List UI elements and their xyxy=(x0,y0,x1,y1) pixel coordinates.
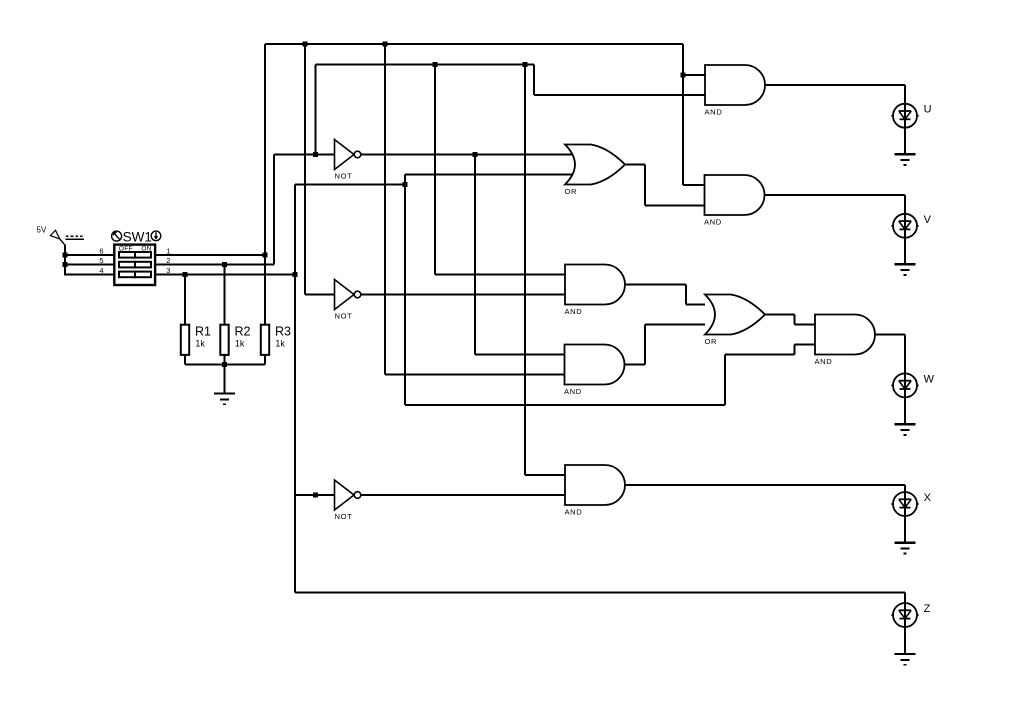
wire net B vertical x315 xyxy=(315,65,317,155)
junction pin3-R1 xyxy=(183,272,188,277)
and-gate AND4 (output W) xyxy=(815,315,876,367)
and-gate AND1 (output U) xyxy=(705,65,766,117)
svg-text:1k: 1k xyxy=(235,339,245,349)
or-gate OR1 xyxy=(565,145,626,197)
wire OR2 bottom input xyxy=(645,324,705,326)
wire NOT1 output to OR1 xyxy=(361,154,575,156)
wire OR1 output vertical xyxy=(644,165,646,206)
wire AND-b top input xyxy=(475,354,565,356)
wire AND1 output to LED U xyxy=(765,84,905,86)
ground resistors xyxy=(214,394,235,405)
wire net A vertical x305 xyxy=(304,44,306,295)
wire LED X drop xyxy=(904,485,906,492)
junction net B x525 xyxy=(523,62,528,67)
wire AND-b output horizontal xyxy=(625,364,646,366)
wire NOT3 output to AND5 xyxy=(361,494,565,496)
wire SW1 pin5 stub xyxy=(65,264,115,266)
wire AND-a output vertical xyxy=(685,285,687,305)
wire OR2 top input xyxy=(686,304,705,306)
or-gate OR2 xyxy=(705,295,766,347)
switch SW1 xyxy=(114,245,155,285)
junction NOT1 output tap xyxy=(473,152,478,157)
wire 5V diagonal xyxy=(60,239,66,246)
wire pin2 horizontal xyxy=(155,264,274,266)
wire NOT3 input xyxy=(295,494,335,496)
wire NOT2 input xyxy=(305,294,335,296)
led W xyxy=(891,373,919,397)
wire AND4 top input xyxy=(795,324,816,326)
wire R2 top xyxy=(224,265,226,326)
ground LED W xyxy=(895,424,916,435)
wire to AND-b bottom input xyxy=(385,374,565,376)
wire net A vertical x265 xyxy=(264,44,266,325)
wire net C vertical x405 xyxy=(404,175,406,406)
wire net A vertical x683 xyxy=(682,44,684,185)
svg-text:NOT: NOT xyxy=(335,312,353,321)
junction net A AND1 tap xyxy=(681,73,686,78)
wire net A top horizontal xyxy=(265,43,683,45)
svg-text:1: 1 xyxy=(166,246,170,255)
wire R3 bottom xyxy=(264,355,266,365)
and-gate AND-a xyxy=(565,265,626,317)
ground LED V xyxy=(895,264,916,275)
resistor R1 xyxy=(181,325,211,355)
svg-text:AND: AND xyxy=(565,307,583,316)
svg-text:V: V xyxy=(924,214,932,226)
wire AND5 output to LED X xyxy=(625,484,905,486)
wire net C long horizontal y405 xyxy=(405,404,725,406)
and-gate AND5 (output X) xyxy=(565,465,626,517)
svg-text:R2: R2 xyxy=(235,325,251,339)
wire SW1 pin6 stub xyxy=(65,254,115,256)
svg-text:R3: R3 xyxy=(275,325,291,339)
junction pin2-R2 xyxy=(222,262,227,267)
wire net C horizontal y184 xyxy=(295,184,405,186)
resistor R2 xyxy=(220,325,250,355)
svg-text:1k: 1k xyxy=(195,339,205,349)
svg-text:NOT: NOT xyxy=(335,172,353,181)
wire NOT1 input xyxy=(274,154,335,156)
wire resistor ground rail xyxy=(185,364,265,366)
wire AND5 top input xyxy=(525,474,565,476)
junction net A x385 xyxy=(383,42,388,47)
wire LED V ground stem xyxy=(904,238,906,264)
wire LED W ground stem xyxy=(904,397,906,424)
junction NOT3 input xyxy=(313,493,318,498)
wire OR1 output horizontal xyxy=(625,164,645,166)
wire pin3 horizontal xyxy=(155,274,295,276)
wire net B upper horizontal xyxy=(316,64,535,66)
wire AND1 top input xyxy=(683,74,705,76)
svg-text:6: 6 xyxy=(99,246,103,255)
wire AND-a output horizontal xyxy=(625,284,686,286)
wire AND2 output to LED V xyxy=(765,194,905,196)
wire net C to LED Z xyxy=(295,592,905,594)
svg-text:SW1: SW1 xyxy=(123,230,152,245)
wire net B vertical x435 xyxy=(434,65,436,275)
wire net B vertical x525 xyxy=(524,65,526,476)
svg-text:Z: Z xyxy=(924,603,931,615)
wire R2 bottom xyxy=(224,355,226,365)
junction ground rail xyxy=(222,362,227,367)
svg-text:3: 3 xyxy=(166,266,170,275)
wire OR2 output horizontal xyxy=(765,314,795,316)
wire AND2 bottom input xyxy=(645,205,705,207)
wire net B vertical x274 xyxy=(273,155,275,265)
wire LED U ground stem xyxy=(904,128,906,154)
led X xyxy=(891,492,919,516)
wire NOT2 output to AND-a xyxy=(361,294,565,296)
wire R1 bottom xyxy=(184,355,186,365)
svg-text:AND: AND xyxy=(704,218,722,227)
ground LED U xyxy=(895,154,916,165)
junction power-pin5 xyxy=(63,262,68,267)
junction pin1-R3-vertical xyxy=(263,253,268,258)
wire net C vertical x295 xyxy=(294,185,296,593)
wire OR2 output vertical xyxy=(794,315,796,325)
led Z xyxy=(891,603,919,627)
wire LED Z ground stem xyxy=(904,627,906,654)
ground LED Z xyxy=(895,654,916,665)
svg-text:4: 4 xyxy=(99,266,103,275)
svg-text:AND: AND xyxy=(564,387,582,396)
junction net B x435 xyxy=(433,62,438,67)
svg-text:R1: R1 xyxy=(195,325,211,339)
led U xyxy=(891,104,919,128)
wire AND4 bottom input xyxy=(795,344,816,346)
svg-text:U: U xyxy=(924,104,932,116)
wire power rail vertical xyxy=(64,245,66,275)
and-gate AND-b xyxy=(564,345,625,397)
wire LED U drop xyxy=(904,85,906,104)
svg-text:1k: 1k xyxy=(275,339,285,349)
wire AND-b output vertical xyxy=(644,325,646,365)
svg-text:5V: 5V xyxy=(37,226,47,235)
wire net A vertical x385 xyxy=(384,44,386,375)
svg-text:AND: AND xyxy=(815,357,833,366)
ground LED X xyxy=(895,543,916,554)
svg-text:AND: AND xyxy=(565,508,583,517)
wire LED W drop xyxy=(904,335,906,374)
wire pin1 horizontal xyxy=(155,254,265,256)
not-gate NOT1 (input B) xyxy=(335,140,361,181)
junction net A x305 xyxy=(303,42,308,47)
wire NOT1-out vertical x475 xyxy=(474,155,476,355)
svg-text:OR: OR xyxy=(565,187,578,196)
svg-text:X: X xyxy=(924,492,932,504)
resistor R3 xyxy=(261,325,291,355)
led V xyxy=(891,214,919,238)
junction power-pin6 xyxy=(63,253,68,258)
and-gate AND2 (output V) xyxy=(704,175,765,227)
wire SW1 pin4 stub xyxy=(64,274,115,276)
svg-text:AND: AND xyxy=(705,108,723,117)
svg-text:OR: OR xyxy=(705,337,718,346)
wire AND1 bottom input xyxy=(534,94,705,96)
wire ground stem xyxy=(224,365,226,394)
power terminal dashed marker xyxy=(66,236,85,239)
wire LED V drop xyxy=(904,195,906,214)
wire AND4 output to LED W xyxy=(876,334,906,336)
wire R1 top xyxy=(184,275,186,326)
junction NOT1 input tap xyxy=(313,152,318,157)
power terminal 5V arrow symbol xyxy=(50,230,59,239)
wire net C vertical x794 xyxy=(794,345,796,355)
not-gate NOT3 (input C) xyxy=(335,480,361,521)
svg-text:W: W xyxy=(924,373,935,385)
SW1 actuator down icon xyxy=(151,231,161,241)
junction net C x405 xyxy=(403,182,408,187)
wire LED Z drop xyxy=(904,593,906,604)
svg-text:NOT: NOT xyxy=(335,512,353,521)
svg-text:5: 5 xyxy=(99,256,103,265)
not-gate NOT2 (input A) xyxy=(335,280,361,321)
wire LED X ground stem xyxy=(904,516,906,543)
wire net C horizontal y354 xyxy=(725,354,795,356)
wire OR1 bottom input xyxy=(405,174,575,176)
wire net C vertical x725 xyxy=(724,355,726,406)
wire AND2 top input xyxy=(683,184,705,186)
SW1 actuator up icon xyxy=(112,231,122,241)
junction pin3-vertical xyxy=(293,272,298,277)
wire net B vertical x534 xyxy=(533,65,535,96)
wire AND-a top input xyxy=(435,274,565,276)
